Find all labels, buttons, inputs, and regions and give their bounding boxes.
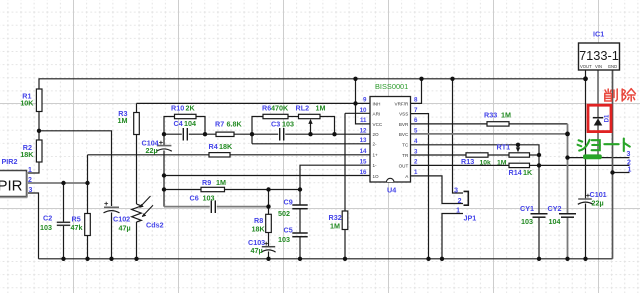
svg-text:1M: 1M (497, 160, 507, 167)
wire R14 right to column (530, 164, 540, 166)
svg-text:R14: R14 (509, 168, 522, 177)
capacitor C103 47u electrolytic (248, 238, 276, 255)
svg-text:1M: 1M (501, 110, 511, 119)
junction node (63.5,183) (61, 181, 65, 185)
wire row pin15 to C9 column (300, 165, 370, 204)
wire PIR pin2 row (27, 182, 88, 184)
svg-text:JP1: JP1 (464, 214, 477, 223)
wire OUT row to header pin 2 (539, 164, 630, 166)
wire VCC column to pin11 (356, 79, 371, 124)
capacitor CY2 104 (548, 204, 577, 226)
wire C2 column (63, 183, 65, 222)
wire R3 bottom to Cds2 (136, 135, 138, 205)
junction node (39,130.8) (37, 129, 41, 133)
capacitor C2 103 (40, 214, 70, 232)
svg-text:9: 9 (363, 97, 367, 104)
wire U4 pin5 row (411, 133, 568, 135)
svg-text:1O: 1O (373, 174, 380, 179)
svg-text:18K: 18K (219, 142, 233, 151)
wire U4 pin7 VSS column to bus (411, 114, 429, 259)
svg-text:U4: U4 (387, 185, 396, 194)
svg-text:3: 3 (414, 148, 418, 155)
junction node (268.5,189.5) (266, 187, 270, 191)
wire node A to C102 top (39, 131, 112, 206)
U4 pin numbers left (360, 97, 367, 177)
svg-text:7133-1: 7133-1 (579, 48, 619, 63)
svg-text:103: 103 (40, 223, 52, 232)
junction node (567.5,258.8) (565, 257, 569, 261)
wire U4 pin4 row to RT1 column (411, 145, 540, 214)
wire C9 to C5 (299, 209, 301, 233)
svg-text:VRF/R: VRF/R (395, 101, 409, 106)
capacitor CY1 103 (520, 204, 548, 226)
svg-text:R13: R13 (461, 157, 474, 166)
wire R8 column top (268, 190, 270, 215)
svg-text:R10: R10 (171, 104, 184, 113)
capacitor C9 502 (278, 198, 308, 218)
resistor R14 1K (509, 163, 533, 177)
wire R8 bottom to C103 (268, 233, 270, 247)
potentiometer RL2 1M (296, 103, 326, 134)
svg-text:1K: 1K (523, 168, 533, 177)
svg-text:16: 16 (360, 169, 367, 176)
junction node (539,165.4) (537, 163, 541, 167)
junction node (252,134.2) (250, 132, 254, 136)
svg-text:2: 2 (414, 159, 418, 166)
wire R10 left branch (164, 117, 175, 135)
svg-text:47k: 47k (71, 223, 83, 232)
op-amp IC U4 BISS0001 body (370, 82, 411, 194)
svg-text:PIR2: PIR2 (2, 157, 18, 166)
svg-text:1: 1 (28, 167, 32, 174)
svg-text:TC: TC (402, 143, 409, 148)
svg-text:12: 12 (360, 128, 367, 135)
svg-text:CY2: CY2 (548, 204, 562, 213)
svg-text:VIN: VIN (595, 64, 602, 69)
svg-text:103: 103 (282, 119, 294, 128)
wire R6 to RL2 (288, 116, 299, 118)
wire R9 row (164, 189, 300, 191)
svg-text:BISS0001: BISS0001 (375, 82, 408, 91)
svg-text:6.8K: 6.8K (227, 119, 243, 128)
svg-text:1: 1 (414, 169, 418, 176)
svg-text:11: 11 (360, 117, 367, 124)
junction node (334.5,134.2) (332, 132, 336, 136)
svg-text:IC1: IC1 (593, 30, 604, 39)
svg-text:C6: C6 (190, 193, 199, 202)
svg-text:RL2: RL2 (296, 103, 310, 112)
wire U4 pin1 to JP1 pin2 (411, 176, 464, 204)
junction node (63.5,258.8) (61, 257, 65, 261)
svg-text:BVR: BVR (399, 122, 409, 127)
svg-text:+: + (264, 239, 269, 248)
junction node (310.5,134.2) (308, 132, 312, 136)
resistor R4 18K (209, 142, 233, 157)
svg-text:R32: R32 (329, 213, 342, 222)
svg-text:10K: 10K (20, 98, 34, 107)
junction node (268.5,206.6) (266, 204, 270, 208)
svg-text:ARI: ARI (373, 112, 381, 117)
resistor R6 470K (262, 103, 289, 118)
wire R3 top from pin9 row (136, 103, 138, 112)
wire Cds2 bottom to bus (136, 222, 138, 259)
wire IC1 GND column (612, 70, 614, 259)
IC1 7133-1 regulator box (579, 30, 620, 71)
junction node (567.5,157.6) (565, 155, 569, 159)
svg-text:1M: 1M (330, 222, 340, 231)
svg-text:Cds2: Cds2 (146, 220, 164, 229)
wire row pin14 from R5 column to R4 to U4 (88, 154, 371, 156)
junction node (585.5,78.8) (583, 76, 588, 81)
gray net wires (27, 70, 599, 259)
svg-text:1M: 1M (316, 103, 326, 112)
junction node (164,175.5) (162, 173, 166, 177)
annotation short green bar (583, 154, 602, 159)
capacitor C3 103 (271, 119, 294, 140)
junction node (539,155) (537, 153, 541, 157)
svg-text:C101: C101 (590, 190, 607, 199)
U4 pin names left (373, 101, 383, 179)
capacitor C4 104 (174, 119, 197, 140)
wire U4 pin8 to top rail (411, 79, 422, 104)
wire ground bus (39, 258, 613, 260)
wire IC1 VOUT pin to rail (585, 70, 587, 79)
photoresistor Cds2 (132, 196, 164, 229)
wire GND dot to header pin 1 (613, 172, 630, 174)
svg-text:47µ: 47µ (119, 223, 131, 232)
resistor R1 10K (20, 89, 42, 112)
junction node (428.5,258.8) (426, 257, 430, 261)
capacitor C104 22u electrolytic (142, 138, 172, 155)
capacitor C102 47u electrolytic (104, 199, 131, 232)
svg-text:3: 3 (454, 187, 458, 194)
svg-text:+: + (104, 199, 109, 208)
svg-text:1-: 1- (373, 163, 378, 168)
annotation sakujo delete text (605, 89, 636, 101)
junction node (585.5,258.8) (583, 257, 587, 261)
header pin labels right edge (627, 151, 632, 173)
junction node (345,258.8) (343, 257, 347, 261)
svg-text:103: 103 (203, 193, 215, 202)
connector JP1 (454, 187, 476, 222)
svg-text:R5: R5 (72, 214, 81, 223)
wire C104 column (163, 134, 165, 145)
svg-text:1: 1 (456, 208, 460, 215)
resistor R7 6.8K (215, 119, 242, 136)
junction node (452.5,78.8) (450, 77, 454, 81)
capacitor C101 22u electrolytic (578, 190, 607, 208)
svg-text:10k: 10k (480, 160, 492, 167)
resistor R2 18K (20, 140, 42, 162)
resistor R3 1M (118, 109, 140, 134)
svg-text:1: 1 (628, 166, 632, 173)
svg-text:2: 2 (458, 198, 462, 205)
svg-text:7: 7 (414, 107, 418, 114)
svg-text:103: 103 (278, 235, 290, 244)
svg-text:TR: TR (402, 153, 409, 158)
wire PIR pin 3 down to ground bus (27, 193, 39, 259)
junction node (567.5,133.9) (565, 132, 570, 137)
resistor R33 1M (484, 110, 511, 126)
svg-text:4: 4 (414, 138, 418, 145)
wire R13 to RT1 body (488, 154, 509, 156)
svg-text:OUT: OUT (399, 163, 409, 168)
junction node (300,189.5) (298, 187, 302, 191)
wire diode to short bar (597, 126, 599, 156)
wire row pin12 with C4 C3 (164, 133, 370, 135)
svg-text:1M: 1M (216, 178, 226, 187)
svg-text:8: 8 (414, 97, 418, 104)
svg-text:VCC: VCC (373, 122, 383, 127)
svg-text:47µ: 47µ (251, 246, 263, 255)
junction node (268.5,258.8) (266, 257, 270, 261)
svg-text:470K: 470K (271, 103, 289, 112)
wire U4 pin3 row to R13 (411, 154, 467, 156)
svg-text:2O: 2O (373, 132, 380, 137)
svg-text:C3: C3 (271, 119, 280, 128)
svg-text:+: + (159, 138, 164, 147)
svg-text:22µ: 22µ (146, 146, 158, 155)
svg-text:103: 103 (521, 217, 533, 226)
svg-text:C102: C102 (113, 215, 130, 224)
U4 pin numbers right (414, 97, 418, 177)
connector PIR2 box (0, 157, 33, 198)
wire CY2 column (567, 124, 569, 214)
resistor R8 18K (252, 214, 272, 233)
wire R1 to R2 and node A (38, 112, 40, 141)
svg-text:104: 104 (184, 119, 196, 128)
wire top rail to JP1 pin3 (453, 79, 464, 193)
wire VCC top rail (39, 79, 586, 89)
capacitor C5 103 (278, 226, 308, 245)
svg-text:VSS: VSS (399, 112, 408, 117)
svg-text:R6: R6 (262, 103, 271, 112)
capacitor C6 103 (190, 193, 217, 213)
wire RT1 right to column (530, 154, 540, 156)
svg-text:R7: R7 (215, 119, 224, 128)
junction node (136.5,258.8) (134, 257, 138, 261)
svg-text:22µ: 22µ (592, 199, 604, 208)
svg-text:3: 3 (627, 151, 631, 158)
junction node (164,134.2) (162, 132, 166, 136)
junction node (87.5,258.8) (85, 257, 89, 261)
wire net3 row to header pin 3 (568, 157, 630, 159)
svg-text:RT1: RT1 (497, 143, 511, 152)
wire row pin13 (252, 143, 370, 145)
wire CY1 column to bus (538, 217, 540, 258)
junction node (442,258.8) (440, 257, 444, 261)
wire U4 pin2 OUT row to R14 (411, 164, 510, 166)
svg-text:15: 15 (360, 159, 367, 166)
svg-text:18K: 18K (20, 150, 34, 159)
svg-text:INH: INH (373, 101, 381, 106)
svg-text:3: 3 (29, 187, 33, 194)
junction node (111.5,258.8) (109, 257, 113, 261)
wire IC1 VIN column to diode (597, 70, 599, 117)
wire C5 to bus (299, 237, 301, 259)
wire row pin9 R3 to U4 (137, 102, 371, 104)
svg-text:6: 6 (414, 117, 418, 124)
wire U4 pin6 row to R33 (411, 123, 488, 125)
junction node (205,134.2) (203, 132, 207, 136)
svg-text:R4: R4 (209, 142, 218, 151)
wire RL2 right branch (320, 117, 335, 135)
junction node (355.5,78.8) (353, 77, 357, 81)
wire R10 right branch (196, 117, 205, 135)
svg-text:104: 104 (549, 217, 561, 226)
wire R5 column (87, 155, 89, 214)
wire row pin16 (164, 175, 370, 177)
resistor R10 2K (171, 104, 196, 119)
wire C101 column (585, 79, 587, 199)
svg-text:5: 5 (414, 128, 418, 135)
junction node (355.5,103.4) (353, 101, 357, 105)
junction node (539,258.8) (537, 257, 541, 261)
svg-text:502: 502 (278, 209, 290, 218)
svg-text:CY1: CY1 (520, 204, 534, 213)
wire C102 column lower (111, 213, 113, 259)
U4 pin names right (395, 101, 410, 179)
wire R6 left branch (252, 117, 263, 144)
wire pin10 row (345, 112, 370, 114)
junction node (518,144.8) (516, 143, 520, 147)
wire R33 right to gray column (509, 123, 568, 125)
svg-text:10: 10 (360, 107, 367, 114)
junction node (421.5,78.8) (419, 77, 423, 81)
svg-text:18K: 18K (252, 225, 266, 234)
svg-text:R33: R33 (484, 110, 497, 119)
resistor R13 10k (461, 153, 491, 167)
svg-text:1M: 1M (118, 116, 128, 125)
resistor R5 47k (71, 214, 91, 236)
resistor R32 1M (329, 211, 348, 231)
wire JP1 pin1 to bus (442, 214, 463, 259)
diode D1 (593, 114, 611, 126)
svg-text:14: 14 (360, 148, 367, 155)
annotation red box around diode (588, 105, 611, 131)
junction node (164,189.5) (162, 187, 166, 191)
annotation short text (578, 139, 630, 151)
svg-text:1+: 1+ (373, 153, 379, 158)
svg-text:C2: C2 (43, 214, 52, 223)
junction node (300,258.8) (298, 257, 302, 261)
resistor R9 1M (201, 178, 226, 192)
svg-text:13: 13 (360, 137, 367, 144)
svg-text:2: 2 (28, 177, 32, 184)
wire C103 to bus (268, 252, 270, 259)
svg-text:VOUT: VOUT (580, 64, 592, 69)
potentiometer RT1 1M (497, 143, 530, 167)
svg-text:PIR: PIR (0, 177, 23, 194)
svg-text:R9: R9 (202, 178, 211, 187)
svg-text:C5: C5 (284, 226, 293, 235)
svg-text:C9: C9 (284, 198, 293, 207)
wire R2 bottom to PIR pin 1 (27, 162, 40, 173)
junction node (612.5,172.5) (610, 170, 614, 174)
wire C6 row (164, 206, 269, 208)
svg-text:GND: GND (608, 64, 617, 69)
svg-text:2K: 2K (186, 104, 196, 113)
junction node (87.5,183) (85, 181, 89, 185)
svg-text:2-: 2- (373, 142, 378, 147)
svg-text:C4: C4 (174, 119, 183, 128)
svg-text:BVC: BVC (399, 132, 409, 137)
wire R32 column (344, 113, 346, 211)
